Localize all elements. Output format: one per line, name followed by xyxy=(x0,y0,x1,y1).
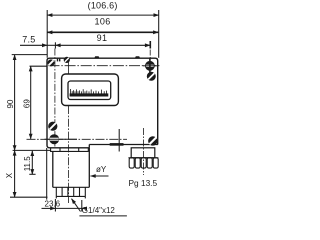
cable gland body xyxy=(131,148,155,158)
svg-text:106: 106 xyxy=(94,17,110,27)
vertical centerline left screws column xyxy=(54,49,56,147)
label 23.6 xyxy=(45,200,61,209)
vertical centerline connector column xyxy=(68,62,70,203)
dimension 69 xyxy=(30,66,48,139)
screw BR xyxy=(149,137,157,145)
dimension 7.5 xyxy=(20,44,55,46)
top tab left xyxy=(94,56,99,58)
label 106 xyxy=(94,17,110,27)
label X xyxy=(5,172,14,178)
svg-text:øY: øY xyxy=(96,165,107,174)
svg-text:(106.6): (106.6) xyxy=(88,1,118,11)
dimension 11.5 xyxy=(29,151,35,175)
vertical centerline right mounting screw xyxy=(149,41,151,58)
screw BL-B xyxy=(45,135,78,144)
dimension 90 xyxy=(12,55,51,151)
body bottom edge right portion (stepped) xyxy=(89,144,158,147)
label G1/4x12 xyxy=(82,206,116,215)
svg-text:7.5: 7.5 xyxy=(22,34,35,44)
label 90 xyxy=(6,99,15,108)
connector flange xyxy=(51,148,89,152)
screw R2 xyxy=(147,72,155,80)
connector block xyxy=(53,148,90,188)
svg-text:G1/4"x12: G1/4"x12 xyxy=(82,206,116,215)
label 7.5 xyxy=(22,34,35,44)
screw BL-A xyxy=(49,122,57,130)
window outer frame xyxy=(62,74,119,106)
horizontal centerline upper (dash-dot) xyxy=(49,65,161,67)
label Pg 13.5 xyxy=(129,178,158,188)
label 11.5 xyxy=(23,156,32,172)
label oY xyxy=(96,165,107,174)
svg-text:90: 90 xyxy=(6,99,15,108)
svg-text:Pg 13.5: Pg 13.5 xyxy=(129,178,158,188)
label 91 xyxy=(97,33,108,43)
dimension (106.6) xyxy=(47,10,159,58)
top tab right xyxy=(135,56,140,58)
leader G1/4 xyxy=(72,199,127,216)
knockout centerline cross xyxy=(118,129,120,152)
label 69 xyxy=(22,99,31,108)
mounting screw TR (slot vertical) xyxy=(143,59,157,73)
horizontal centerline lower (dash-dot) xyxy=(27,138,128,140)
cable gland centerline xyxy=(143,128,145,175)
body outline xyxy=(47,58,158,148)
window inner frame xyxy=(68,81,111,100)
scale ticks xyxy=(71,89,107,94)
svg-text:11.5: 11.5 xyxy=(23,156,32,172)
svg-text:23.6: 23.6 xyxy=(45,200,61,209)
terminal clamp ticks xyxy=(57,59,61,62)
dimension X xyxy=(10,148,48,200)
svg-text:91: 91 xyxy=(97,33,108,43)
G1/4 thread xyxy=(56,187,85,198)
dimension 91 xyxy=(55,42,150,48)
leader oY xyxy=(91,175,109,177)
svg-text:69: 69 xyxy=(22,99,31,108)
dimension 23.6 xyxy=(42,199,87,212)
screw TL1 xyxy=(48,60,54,66)
cable gland nut xyxy=(128,158,158,168)
label (106.6) xyxy=(88,1,118,11)
scale bar xyxy=(70,93,109,96)
screw TL2 xyxy=(64,57,69,62)
dimension 106 xyxy=(47,31,158,33)
svg-text:X: X xyxy=(5,172,14,178)
